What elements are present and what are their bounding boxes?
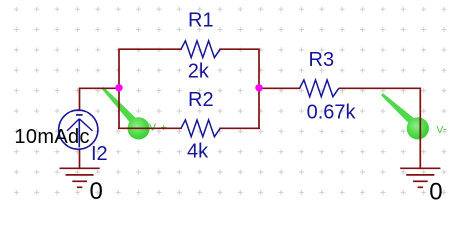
svg-text:4k: 4k xyxy=(187,141,209,163)
svg-text:R3: R3 xyxy=(309,49,335,71)
svg-text:V: V xyxy=(436,124,443,136)
svg-text:I2: I2 xyxy=(91,143,108,165)
svg-text:0.67k: 0.67k xyxy=(307,101,357,123)
svg-text:-: - xyxy=(443,123,447,135)
svg-text:0: 0 xyxy=(90,178,103,205)
svg-text:R2: R2 xyxy=(188,89,214,111)
svg-text:R1: R1 xyxy=(188,10,214,32)
svg-text:2k: 2k xyxy=(188,60,210,82)
svg-text:0: 0 xyxy=(429,178,442,205)
svg-text:V: V xyxy=(149,121,156,133)
svg-text:10mAdc: 10mAdc xyxy=(14,126,89,148)
